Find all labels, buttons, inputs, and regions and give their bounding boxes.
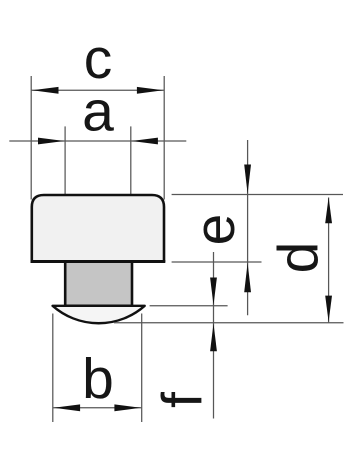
bottom datum line xyxy=(114,322,344,324)
arrow a left (outside, points right) xyxy=(38,138,64,145)
head-bottom datum line xyxy=(172,261,262,263)
arrow f bottom (points up to bottom datum) xyxy=(210,323,217,351)
head bottom edge (redrawn over shank top) xyxy=(31,260,166,263)
extension line a right xyxy=(130,126,132,194)
dimension line e xyxy=(247,140,249,315)
arrow c right xyxy=(137,87,163,94)
arrow d top (points up) xyxy=(325,197,332,223)
extension line c right xyxy=(163,76,165,200)
svg-text:f: f xyxy=(151,392,215,408)
arrow c left xyxy=(32,87,58,94)
arrow e top (points down to top datum) xyxy=(244,165,251,194)
arrow e bottom (points up to head-bottom datum) xyxy=(244,263,251,292)
extension line a left xyxy=(64,126,66,194)
arrow a right (outside, points left) xyxy=(132,138,158,145)
dimension line d xyxy=(328,198,330,323)
svg-text:e: e xyxy=(183,214,247,246)
arrow f top (points down to flange-top datum) xyxy=(210,278,217,306)
extension line c left xyxy=(30,76,32,200)
dimension line b xyxy=(53,407,142,409)
extension line b right xyxy=(141,314,143,423)
arrow b right xyxy=(114,404,140,411)
extension line b left xyxy=(52,314,54,423)
shank xyxy=(65,262,132,306)
arrow d bottom (points down) xyxy=(325,296,332,322)
svg-text:a: a xyxy=(82,80,114,144)
dimension line f xyxy=(213,252,215,419)
dimension line c xyxy=(31,89,164,91)
arrow b left xyxy=(54,404,80,411)
dimension line a xyxy=(9,140,186,142)
flange dome xyxy=(53,306,145,323)
top datum line xyxy=(172,194,343,196)
flange-top datum line xyxy=(150,305,228,307)
svg-text:d: d xyxy=(267,242,331,274)
head (rounded top rivet head) xyxy=(32,195,164,262)
svg-text:b: b xyxy=(82,347,114,411)
